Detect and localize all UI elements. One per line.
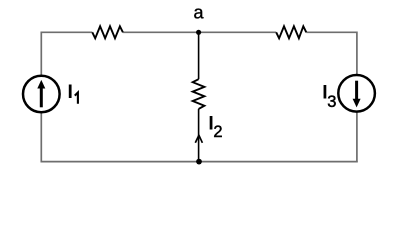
resistor (middle vertical branch) <box>193 79 205 109</box>
resistor (left, top wire) <box>92 26 123 38</box>
wire: middle vertical lower (resistor to bottom node) <box>198 109 200 162</box>
wire: top-middle horizontal segment <box>123 31 276 33</box>
current source I1 (circle) <box>23 76 60 113</box>
svg-text:a: a <box>194 3 205 23</box>
wire: top-right horizontal segment <box>306 31 357 33</box>
svg-text:I: I <box>68 82 73 103</box>
wire: right vertical upper segment <box>356 32 358 76</box>
svg-text:2: 2 <box>213 123 222 141</box>
current source I1 arrow (up) <box>40 88 43 108</box>
wire: right vertical lower segment <box>356 111 358 163</box>
resistor (right, top wire) <box>276 26 306 38</box>
wire: left vertical upper segment <box>40 32 42 77</box>
wire: top-left horizontal segment <box>41 31 92 33</box>
node a junction dot (top) <box>196 30 201 35</box>
svg-text:3: 3 <box>327 93 336 111</box>
current source I3 arrow (down) <box>355 81 358 100</box>
junction dot (bottom) <box>196 159 202 165</box>
current source I3 (circle) <box>338 75 375 112</box>
wire: bottom horizontal <box>41 161 358 163</box>
wire: middle vertical upper (node a to resistor) <box>198 32 200 79</box>
wire: left vertical lower segment <box>40 112 42 162</box>
I2 current direction arrowhead (chevron up on middle wire) <box>195 135 202 143</box>
